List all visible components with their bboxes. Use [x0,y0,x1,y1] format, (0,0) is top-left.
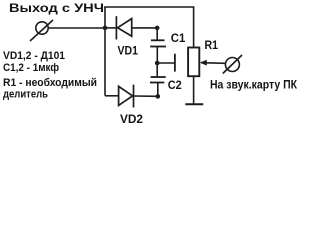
output connector X2 (circle with slash) [223,55,242,74]
capacitor C2 [150,77,166,83]
svg-text:VD1,2 - Д101: VD1,2 - Д101 [3,50,65,62]
svg-text:C2: C2 [168,78,182,92]
capacitor C1 [150,40,166,46]
input connector X1 (circle with slash) [30,20,53,41]
wire: left vertical bus [104,7,106,96]
wiper arrow of R1 [200,60,226,66]
node A junction dot [103,26,108,31]
node B junction dot [155,26,160,31]
wire: right vertical to R1 top [193,7,195,48]
wire: node M to common terminal [157,62,175,64]
wire: VD2 cathode to node D [134,95,158,97]
svg-text:На звук.карту ПК: На звук.карту ПК [210,77,298,91]
wire: C1 bottom to node M [156,47,158,64]
svg-text:R1: R1 [205,39,219,52]
wire: node M down to C2 [156,63,158,77]
wire: input to node A [48,27,105,29]
node D junction dot [156,94,161,99]
svg-text:R1 - необходимый: R1 - необходимый [3,77,97,89]
wire: VD1 anode to node B [132,27,158,29]
diode VD2 (cathode bar right) [119,85,134,108]
svg-text:C1: C1 [171,31,186,45]
common terminal bar (right of node M) [174,54,176,72]
svg-text:VD1: VD1 [118,44,139,57]
svg-text:Выход с УНЧ: Выход с УНЧ [9,1,104,15]
svg-text:С1,2 - 1мкф: С1,2 - 1мкф [3,62,59,74]
diode VD1 (cathode bar left) [116,16,131,39]
resistor R1 body [188,48,199,77]
svg-text:VD2: VD2 [120,112,143,126]
wire: C2 bottom to node D [157,83,159,97]
wire: left bus corner to VD2 anode [105,95,119,97]
wire: node A to VD1 cathode [105,27,117,29]
svg-text:делитель: делитель [3,88,48,100]
wire: top rail [104,6,194,8]
ground bar below R1 [185,103,203,105]
wire: R1 bottom lead [193,76,195,103]
wire: node B down to C1 [156,28,158,40]
node M junction dot [155,61,160,66]
